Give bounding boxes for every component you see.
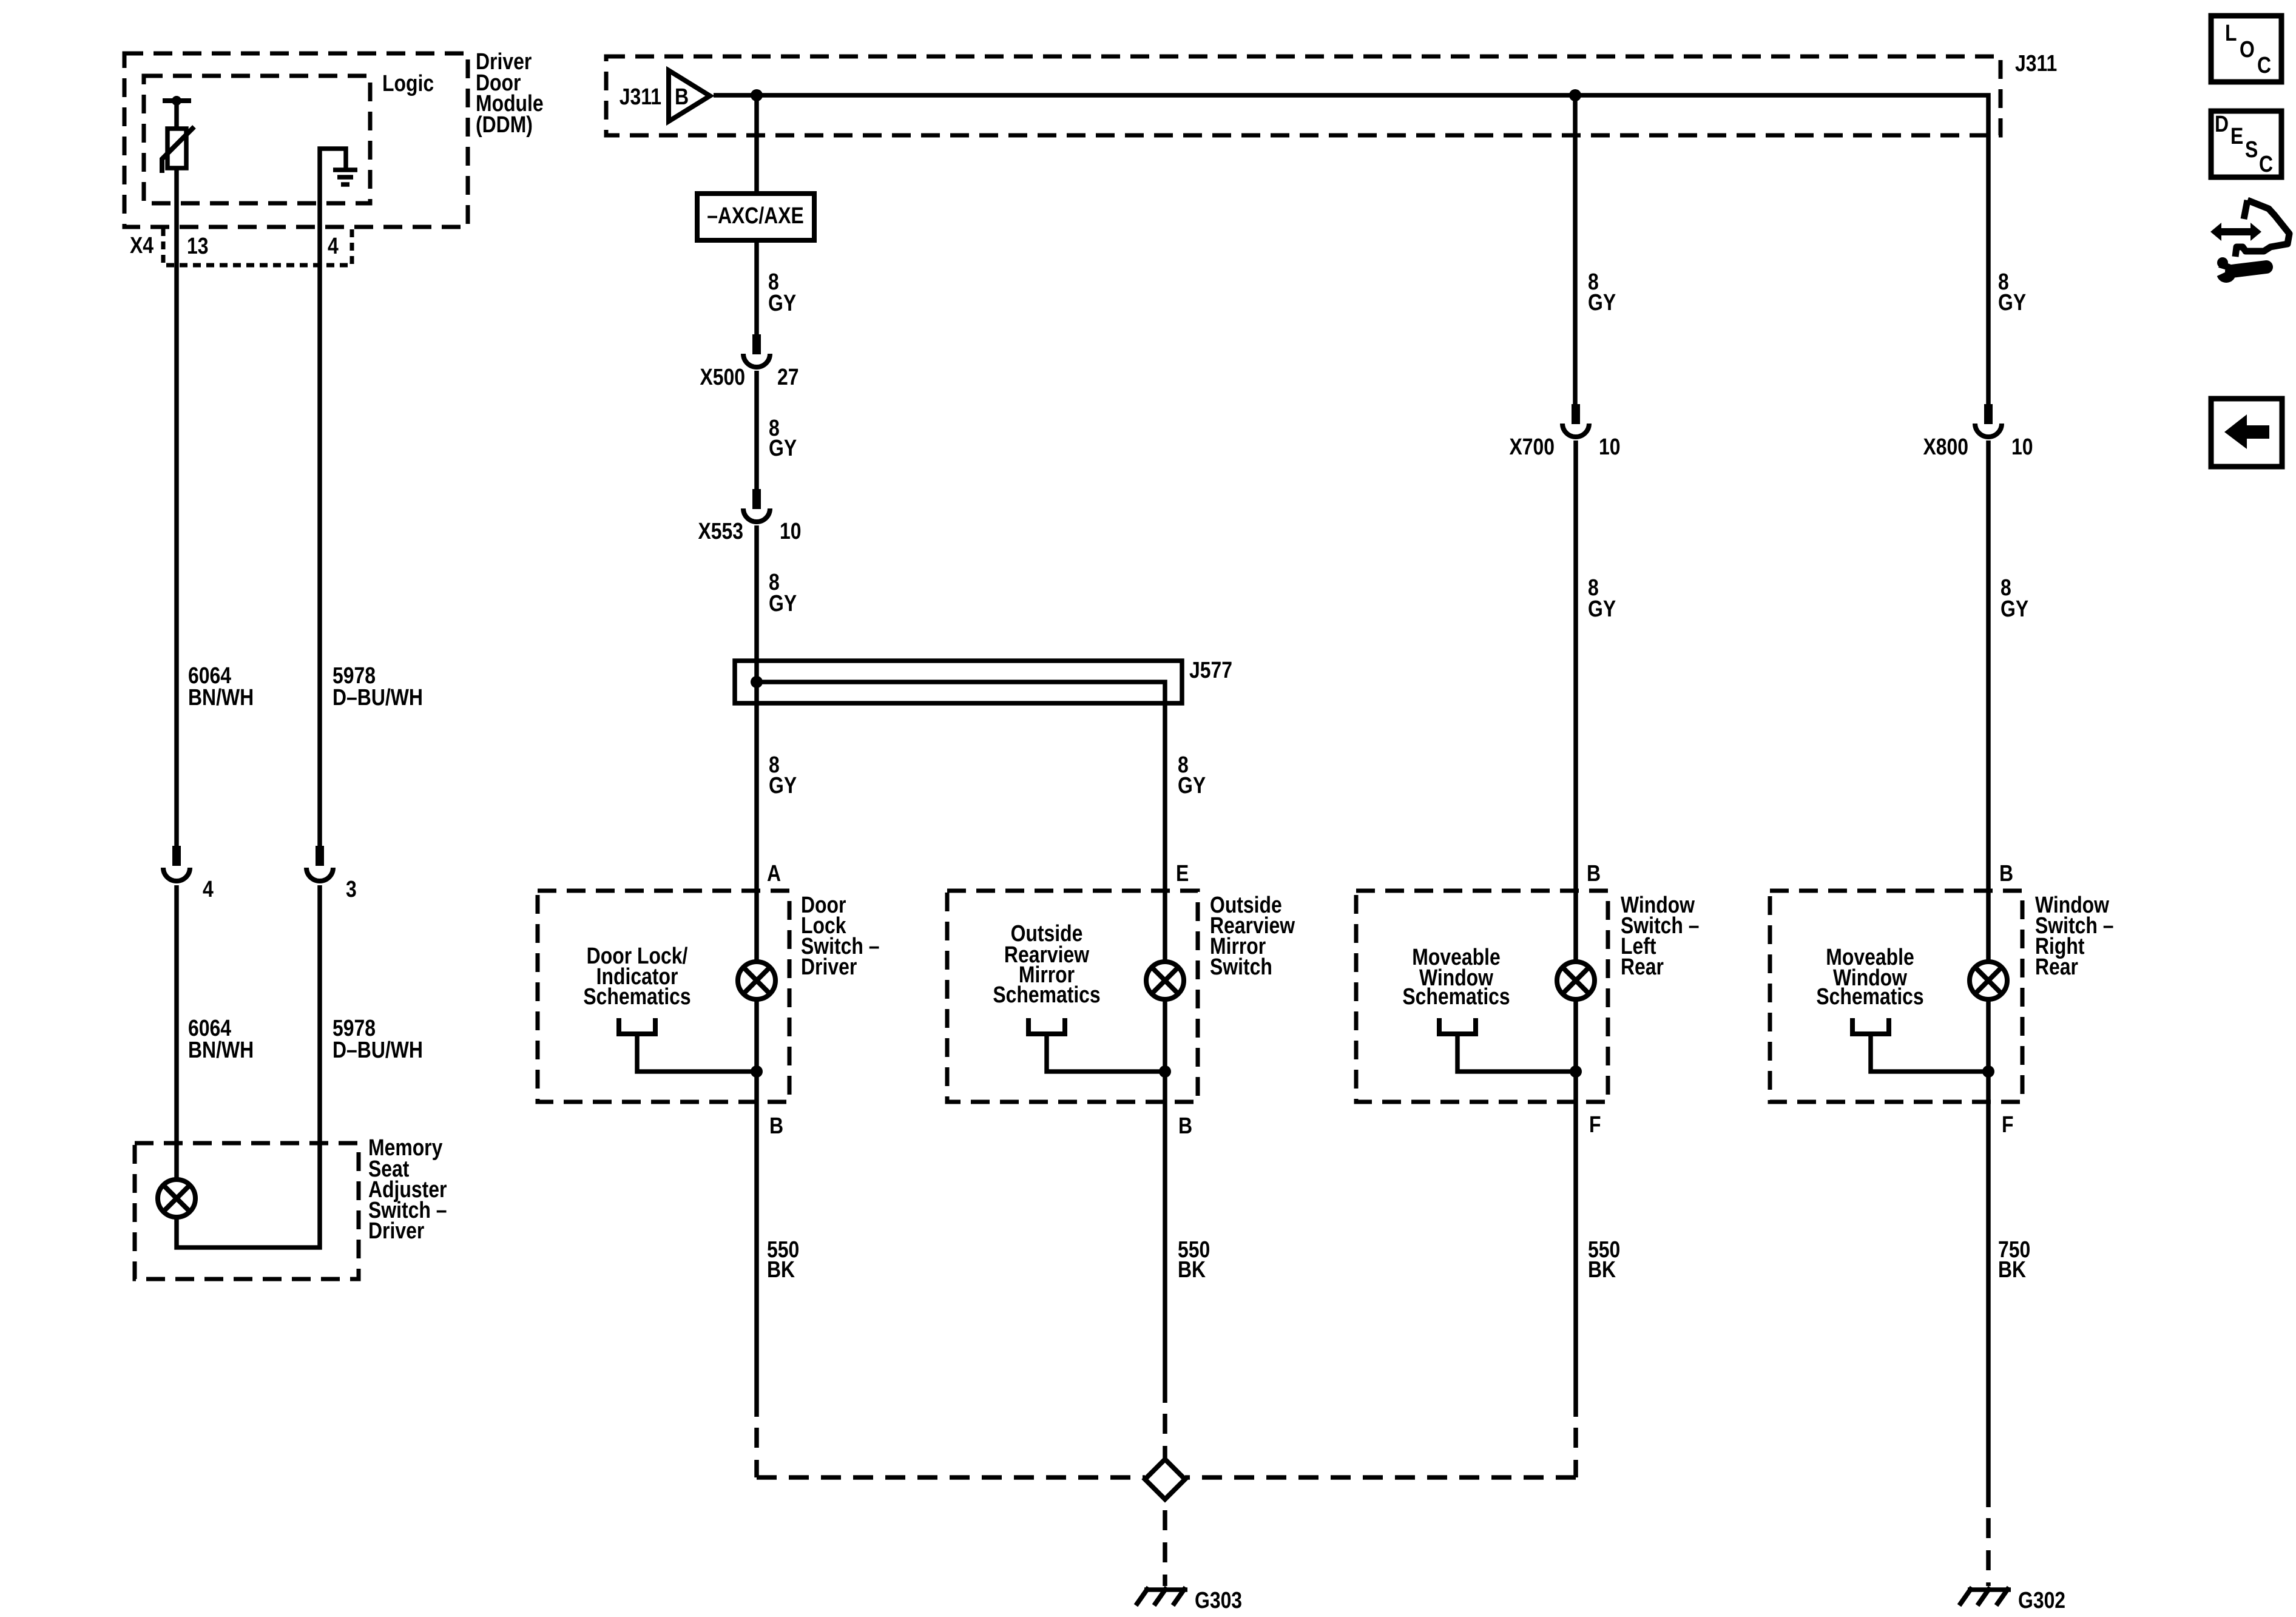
svg-text:10: 10: [1599, 434, 1621, 459]
label Outside Rearview Mirror Schematics: [993, 920, 1100, 1007]
pin letter B door lock switch bottom: [769, 1113, 783, 1138]
wire label 550 BK wire3: [1588, 1237, 1620, 1282]
label J311 at triangle: [620, 84, 661, 109]
icon box LOC: [2211, 16, 2281, 82]
svg-text:BN/WH: BN/WH: [188, 1037, 254, 1062]
pin letter A door lock switch: [767, 860, 781, 886]
wire label 6064 BN/WH upper: [188, 663, 254, 710]
wire DDM thermistor branch to connector X4 pin 13: [174, 168, 179, 846]
schematic reference bracket left rear window: [1439, 1018, 1582, 1078]
label J311 top right: [2015, 50, 2057, 76]
wire label 5978 D-BU/WH lower: [333, 1015, 423, 1062]
switch box Door Lock Switch - Driver: [538, 891, 789, 1102]
node junction dot at wire 3 tap: [1569, 89, 1581, 101]
svg-text:BK: BK: [767, 1257, 795, 1282]
svg-text:B: B: [1999, 860, 2013, 886]
svg-text:(DDM): (DDM): [476, 112, 533, 137]
wire label 8 GY wire1 above X500: [768, 269, 796, 316]
svg-text:Schematics: Schematics: [1402, 984, 1510, 1009]
svg-text:Switch: Switch: [1210, 954, 1272, 979]
splice pack J577 box: [735, 661, 1182, 703]
wire label 750 BK wire4: [1998, 1237, 2030, 1282]
svg-text:D–BU/WH: D–BU/WH: [333, 1037, 423, 1062]
connector box X4: [163, 228, 352, 265]
svg-text:X800: X800: [1923, 434, 1968, 459]
label connector X700: [1509, 434, 1555, 459]
svg-text:J311: J311: [2015, 50, 2057, 76]
wire 2 from mirror switch lamp down: [1163, 1001, 1167, 1403]
label splice J577: [1189, 657, 1232, 683]
wire label 550 BK wire2: [1178, 1237, 1210, 1282]
label Door Lock Switch - Driver: [801, 892, 879, 979]
icon box back arrow: [2211, 399, 2282, 467]
svg-text:Schematics: Schematics: [993, 982, 1100, 1007]
svg-text:B: B: [769, 1113, 783, 1138]
switch box Window Switch - Right Rear: [1770, 891, 2022, 1102]
svg-text:GY: GY: [1998, 289, 2026, 315]
svg-text:X4: X4: [130, 232, 154, 258]
label ground G303: [1195, 1587, 1242, 1613]
wire 4 dashed segment to ground G302: [1986, 1518, 1991, 1586]
icon box DESC: [2211, 111, 2281, 177]
pin letter B triangle: [675, 84, 689, 109]
svg-text:Driver: Driver: [801, 954, 857, 979]
switch box Outside Rearview Mirror Switch: [947, 891, 1198, 1102]
switch box Window Switch - Left Rear: [1356, 891, 1608, 1102]
pin letter F left rear window switch bottom: [1589, 1112, 1601, 1137]
svg-text:F: F: [1589, 1112, 1601, 1137]
connector X553 inline: [743, 489, 770, 522]
wire label 8 GY wire1 below J577: [769, 752, 797, 798]
label Window Switch - Left Rear: [1621, 892, 1699, 979]
node junction dot at wire 1 tap: [751, 89, 763, 101]
wire label 8 GY wire1 above X553: [769, 415, 797, 461]
label -AXC/AXE: [707, 203, 804, 228]
wire label 8 GY wire4 above X800: [1998, 269, 2026, 315]
wire dashed segment diamond splice to ground G303: [1163, 1510, 1167, 1586]
wire 1 dashed ground segment down: [754, 1428, 759, 1477]
svg-text:Schematics: Schematics: [583, 984, 690, 1009]
svg-text:10: 10: [780, 518, 802, 544]
label ground G302: [2018, 1587, 2065, 1613]
svg-text:G303: G303: [1195, 1587, 1242, 1613]
wire 1 from fuse box to X500: [754, 240, 759, 334]
wire 3 from X700 to left rear window switch lamp: [1573, 441, 1578, 960]
svg-text:C: C: [2259, 151, 2273, 177]
svg-text:L: L: [2225, 20, 2237, 46]
lamp memory seat switch illumination: [158, 1180, 195, 1217]
svg-text:3: 3: [346, 876, 357, 902]
ground symbol inside DDM logic: [333, 170, 357, 184]
label Door Lock/Indicator Schematics: [583, 943, 690, 1009]
svg-text:4: 4: [203, 876, 214, 902]
svg-text:GY: GY: [1178, 772, 1206, 798]
svg-text:O: O: [2240, 36, 2255, 62]
wire label 550 BK wire1: [767, 1237, 799, 1282]
module box Driver Door Module (DDM): [124, 53, 468, 227]
schematic reference bracket door lock: [619, 1018, 763, 1078]
svg-text:GY: GY: [769, 590, 797, 616]
svg-text:GY: GY: [768, 290, 796, 316]
svg-text:10: 10: [2011, 434, 2033, 459]
wire 2 splice J577 internal run and drop to mirror switch lamp: [757, 682, 1165, 960]
label Window Switch - Right Rear: [2035, 892, 2113, 979]
wire label 5978 D-BU/WH upper: [333, 663, 423, 710]
wire dashed ground bus right of diamond splice: [1185, 1475, 1576, 1480]
pin number 10 at X553: [780, 518, 802, 544]
svg-text:Logic: Logic: [382, 70, 434, 96]
svg-text:GY: GY: [2001, 596, 2028, 621]
svg-text:BK: BK: [1588, 1257, 1616, 1282]
schematic reference bracket right rear window: [1852, 1018, 1994, 1078]
wire 3 drop from main to X700: [1573, 95, 1578, 404]
wire 1 from X553 through splice J577 to door lock switch lamp: [754, 525, 759, 960]
svg-text:E: E: [1176, 860, 1189, 886]
svg-text:BN/WH: BN/WH: [188, 684, 254, 710]
wire 1 from lamp A-B to dashed ground run: [754, 1001, 759, 1417]
pin letter B right rear window switch: [1999, 860, 2013, 886]
ground G302 chassis symbol: [1959, 1587, 2011, 1605]
pin letter B left rear window switch: [1587, 860, 1601, 886]
wire label 8 GY wire1 below X553: [769, 569, 797, 616]
svg-text:BK: BK: [1998, 1257, 2026, 1282]
wire memory seat lamp return loop to 5978 D-BU/WH: [177, 885, 320, 1247]
pin letter B mirror switch bottom: [1178, 1113, 1192, 1138]
wire label 8 GY wire3 below X700: [1588, 575, 1616, 621]
connector X700 inline: [1562, 404, 1589, 437]
ground G303 chassis symbol: [1136, 1587, 1187, 1605]
svg-text:E: E: [2230, 123, 2243, 149]
module box Logic: [144, 76, 370, 203]
pin letter F right rear window switch bottom: [2002, 1112, 2013, 1137]
wire label 8 GY wire4 below X800: [2001, 575, 2028, 621]
node junction dot inside splice J577: [751, 676, 763, 688]
pin number 4: [328, 233, 339, 258]
svg-text:G302: G302: [2018, 1587, 2065, 1613]
pin number 10 at X700: [1599, 434, 1621, 459]
svg-text:D: D: [2215, 111, 2229, 137]
label Moveable Window Schematics right: [1816, 944, 1923, 1009]
label Logic: [382, 70, 434, 96]
svg-text:27: 27: [777, 364, 799, 390]
svg-text:X500: X500: [700, 364, 745, 390]
power triangle J311 pin B: [669, 70, 710, 121]
lamp right rear window switch illumination: [1970, 962, 2007, 999]
harness box J311: [606, 56, 2001, 135]
wire 4 from X800 to right rear window switch lamp: [1986, 441, 1991, 960]
svg-text:–AXC/AXE: –AXC/AXE: [707, 203, 804, 228]
pin letter E mirror switch: [1176, 860, 1189, 886]
svg-text:S: S: [2245, 137, 2258, 162]
wire 3 from lamp to dashed ground run: [1573, 1001, 1578, 1417]
svg-text:13: 13: [187, 233, 209, 258]
pin number 10 at X800: [2011, 434, 2033, 459]
svg-text:C: C: [2257, 52, 2271, 78]
svg-text:B: B: [675, 84, 689, 109]
wire 3 dashed ground segment down: [1573, 1428, 1578, 1477]
label Driver Door Module (DDM): [476, 49, 544, 137]
wire 5978 D-BU/WH up to DDM ground: [320, 149, 346, 846]
wire dashed ground bus left of diamond splice: [757, 1475, 1145, 1480]
label Moveable Window Schematics left: [1402, 944, 1510, 1009]
connector X4 pin 13 inline: [163, 846, 190, 881]
svg-text:Rear: Rear: [1621, 954, 1664, 979]
svg-text:F: F: [2002, 1112, 2013, 1137]
svg-text:GY: GY: [769, 435, 797, 461]
svg-text:J577: J577: [1189, 657, 1232, 683]
wire 6064 BN/WH to memory seat switch lamp: [174, 885, 179, 1178]
svg-text:A: A: [767, 860, 781, 886]
pin number 3 connector: [346, 876, 357, 902]
icon remove install hand with arrow and wrench: [2209, 200, 2289, 283]
svg-text:X553: X553: [698, 518, 743, 544]
svg-text:4: 4: [328, 233, 339, 258]
connector X4 pin 4 inline: [306, 846, 333, 881]
pin number 4 connector: [203, 876, 214, 902]
switch box Memory Seat Adjuster Switch - Driver: [135, 1143, 359, 1279]
lamp mirror switch illumination: [1146, 962, 1184, 999]
svg-text:X700: X700: [1509, 434, 1555, 459]
schematic reference bracket mirror: [1028, 1018, 1171, 1078]
label connector X500: [700, 364, 745, 390]
wire label 8 GY wire2 below J577: [1178, 752, 1206, 798]
lamp left rear window switch illumination: [1557, 962, 1595, 999]
label Memory Seat Adjuster Switch - Driver: [368, 1135, 447, 1243]
pin number 13: [187, 233, 209, 258]
wire main feed from J311 B to right branch: [714, 95, 1988, 404]
svg-text:BK: BK: [1178, 1257, 1206, 1282]
svg-text:Driver: Driver: [368, 1218, 425, 1243]
svg-text:J311: J311: [620, 84, 661, 109]
connector X800 inline: [1975, 404, 2002, 437]
svg-text:GY: GY: [1588, 596, 1616, 621]
lamp door lock switch illumination: [738, 962, 775, 999]
diamond splice to ground: [1145, 1459, 1185, 1499]
wire DDM thermistor branch upper: [174, 103, 179, 129]
connector X500 inline: [743, 334, 770, 367]
svg-text:Rear: Rear: [2035, 954, 2078, 979]
label connector X4: [130, 232, 154, 258]
svg-text:Schematics: Schematics: [1816, 984, 1923, 1009]
pin number 27: [777, 364, 799, 390]
wire label 8 GY wire3 above X700: [1588, 269, 1616, 315]
wire 4 from lamp down: [1986, 1001, 1991, 1507]
thermistor in DDM logic: [162, 96, 194, 173]
label Outside Rearview Mirror Switch: [1210, 892, 1295, 979]
svg-text:D–BU/WH: D–BU/WH: [333, 684, 423, 710]
wire 1 from X500 to X553: [754, 371, 759, 489]
wire 1 drop from main to -AXC/AXE fuse box: [754, 95, 759, 194]
svg-text:B: B: [1178, 1113, 1192, 1138]
fuse label box -AXC/AXE: [697, 194, 814, 240]
wire 2 dashed segment to diamond splice: [1163, 1414, 1167, 1459]
label connector X553: [698, 518, 743, 544]
svg-text:B: B: [1587, 860, 1601, 886]
svg-text:GY: GY: [769, 772, 797, 798]
label connector X800: [1923, 434, 1968, 459]
svg-text:GY: GY: [1588, 289, 1616, 315]
wire label 6064 BN/WH lower: [188, 1015, 254, 1062]
